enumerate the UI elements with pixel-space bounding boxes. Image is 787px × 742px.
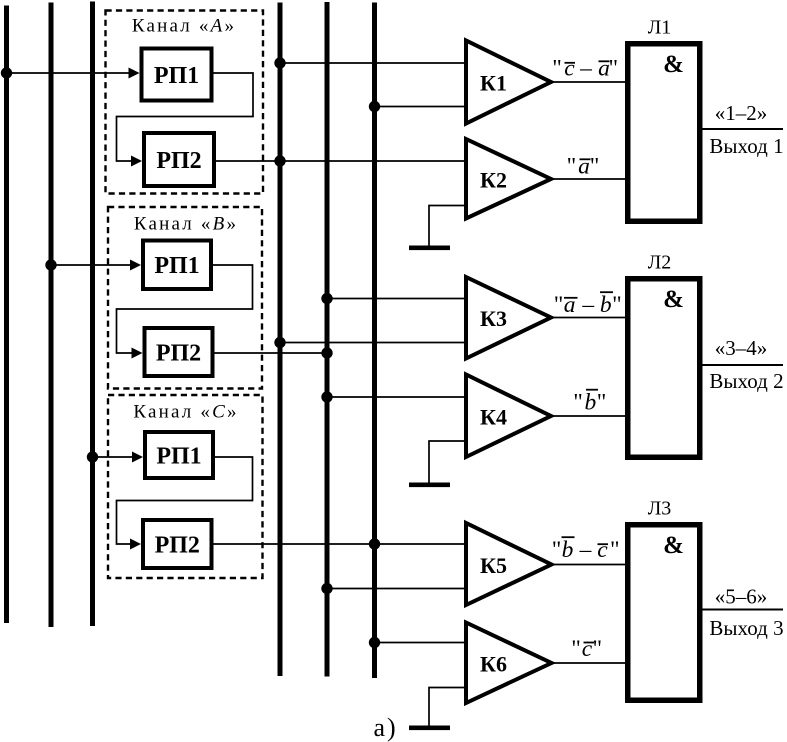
svg-text:К3: К3 bbox=[480, 306, 507, 331]
arrowhead into RP2-C bbox=[130, 539, 141, 550]
junction dot net-c bus / K1 input bbox=[369, 101, 380, 112]
svg-text:": " bbox=[612, 292, 622, 318]
block РП2 (RP2 channel C) bbox=[143, 520, 212, 568]
svg-text:К4: К4 bbox=[480, 405, 507, 430]
svg-text:": " bbox=[554, 292, 564, 318]
wire: L3 output bbox=[703, 609, 784, 611]
wire: K2 output to L1 bbox=[551, 178, 627, 180]
wire: phase-C bus to RP1-C input bbox=[93, 456, 133, 458]
ground symbol under K2 bbox=[409, 246, 450, 251]
wire: RP2-B output to net-b bus bbox=[214, 352, 328, 354]
svg-text:Канал «A»: Канал «A» bbox=[132, 16, 236, 37]
junction dot net-b bus / K4 input bbox=[321, 391, 332, 402]
junction dot net-b bus / RP2-B output bbox=[321, 347, 332, 358]
arrowhead into RP1-A bbox=[129, 68, 140, 79]
junction dot on phase-C bus bbox=[87, 451, 98, 462]
signal label "b" at K4 output bbox=[573, 390, 606, 416]
block РП1 (RP1 channel C) bbox=[145, 432, 213, 478]
bus A phase (left 1) bbox=[4, 6, 9, 624]
junction dot net-a bus / K1 input bbox=[274, 57, 285, 68]
svg-text:b: b bbox=[600, 292, 612, 318]
wire: RP1-C output feedback to RP2-C bbox=[117, 457, 253, 544]
svg-text:РП2: РП2 bbox=[155, 532, 200, 558]
comparator K3 bbox=[466, 277, 551, 359]
ground symbol under K4 bbox=[409, 483, 450, 488]
arrowhead into RP1-C bbox=[132, 452, 143, 463]
svg-text:–: – bbox=[579, 56, 592, 82]
svg-text:b: b bbox=[585, 390, 597, 416]
wire: RP2-C output to comparator K5 input bbox=[212, 543, 466, 545]
block РП2 (RP2 channel A) bbox=[144, 133, 214, 186]
svg-text:c: c bbox=[582, 636, 593, 662]
junction dot on phase-B bus bbox=[45, 259, 56, 270]
bus B phase (left 2) bbox=[49, 3, 54, 628]
comparator K5 bbox=[466, 523, 552, 605]
svg-text:": " bbox=[567, 154, 577, 180]
wire: phase-B bus to RP1-B input bbox=[51, 264, 130, 266]
junction dot net-b bus / K5 input bbox=[321, 583, 332, 594]
wire: K5 output to L3 bbox=[552, 564, 628, 566]
signal label "a" at K2 output bbox=[567, 154, 600, 180]
svg-text:«1–2»: «1–2» bbox=[715, 101, 768, 125]
svg-text:&: & bbox=[663, 51, 684, 78]
svg-text:РП2: РП2 bbox=[156, 148, 201, 174]
svg-text:Выход 1: Выход 1 bbox=[709, 134, 783, 158]
svg-text:": " bbox=[552, 56, 562, 82]
wire: net-c bus to K1 lower input bbox=[375, 106, 467, 108]
wire: K6 lower input to ground bbox=[429, 688, 466, 727]
bus C phase (left 3) bbox=[90, 2, 95, 627]
svg-text:": " bbox=[609, 56, 619, 82]
wire: L2 output bbox=[703, 364, 784, 366]
svg-text:РП2: РП2 bbox=[156, 340, 201, 366]
wire: net-b bus to K3 upper input bbox=[327, 298, 466, 300]
junction dot net-a bus / K3 input bbox=[274, 337, 285, 348]
svg-text:b: b bbox=[562, 537, 574, 563]
svg-text:": " bbox=[552, 537, 562, 563]
signal label "a-b" at K3 output bbox=[554, 292, 622, 318]
svg-text:Канал «B»: Канал «B» bbox=[134, 214, 238, 235]
svg-text:–: – bbox=[581, 292, 594, 318]
svg-text:«5–6»: «5–6» bbox=[715, 585, 768, 609]
svg-text:К5: К5 bbox=[480, 553, 507, 578]
svg-text:«3–4»: «3–4» bbox=[715, 336, 768, 360]
ground symbol under K6 bbox=[409, 726, 450, 731]
comparator K6 bbox=[466, 623, 552, 704]
svg-text:a: a bbox=[564, 292, 576, 318]
svg-text:a: a bbox=[578, 154, 590, 180]
bus net c (mid 3) bbox=[372, 3, 377, 679]
wire: net-a bus to K3 lower input bbox=[280, 342, 466, 344]
svg-text:&: & bbox=[663, 286, 684, 313]
svg-text:Л1: Л1 bbox=[648, 17, 672, 39]
junction dot on phase-A bus bbox=[1, 67, 12, 78]
channel C dashed box bbox=[108, 395, 263, 578]
channel B dashed box bbox=[108, 207, 262, 389]
junction dot net-a bus / RP2-A output bbox=[274, 155, 285, 166]
comparator K2 bbox=[466, 139, 551, 219]
channel A dashed box bbox=[106, 11, 264, 194]
svg-text:": " bbox=[610, 537, 620, 563]
svg-text:РП1: РП1 bbox=[154, 253, 199, 279]
wire: K1 output to L1 bbox=[551, 81, 627, 83]
bus net b (mid 2) bbox=[325, 2, 330, 677]
wire: net-b bus to K5 lower input bbox=[327, 588, 466, 590]
block РП1 (RP1 channel A) bbox=[142, 49, 212, 101]
svg-text:К1: К1 bbox=[480, 71, 507, 96]
junction dot net-c bus / RP2-C output bbox=[369, 538, 380, 549]
svg-text:": " bbox=[597, 390, 607, 416]
svg-text:а): а) bbox=[374, 713, 398, 742]
arrowhead into RP1-B bbox=[130, 260, 141, 271]
svg-text:Л3: Л3 bbox=[648, 498, 672, 520]
wire: RP1-A output feedback to RP2-A bbox=[117, 73, 254, 161]
svg-text:": " bbox=[593, 636, 603, 662]
signal label "c" at K6 output bbox=[571, 636, 602, 662]
svg-text:Выход 3: Выход 3 bbox=[709, 616, 783, 640]
wire: net-a bus to K1 upper input bbox=[280, 62, 466, 64]
block РП1 (RP1 channel B) bbox=[143, 241, 211, 290]
svg-text:К2: К2 bbox=[480, 168, 507, 193]
svg-text:c: c bbox=[597, 537, 608, 563]
svg-text:–: – bbox=[579, 537, 592, 563]
comparator K4 bbox=[466, 375, 551, 458]
svg-text:": " bbox=[590, 154, 600, 180]
AND gate L3 bbox=[628, 525, 700, 701]
svg-text:&: & bbox=[663, 532, 684, 559]
wire: phase-A bus to RP1-A input bbox=[7, 72, 129, 74]
wire: net-b bus to K4 upper input bbox=[327, 396, 466, 398]
svg-text:Канал «C»: Канал «C» bbox=[133, 402, 238, 423]
svg-text:c: c bbox=[564, 56, 575, 82]
comparator K1 bbox=[466, 41, 551, 124]
arrowhead into RP2-B bbox=[132, 348, 143, 359]
svg-text:Выход 2: Выход 2 bbox=[709, 369, 783, 393]
svg-text:Л2: Л2 bbox=[648, 252, 672, 274]
wire: RP1-B output feedback to RP2-B bbox=[117, 265, 253, 353]
wire: L1 output bbox=[703, 128, 784, 130]
block РП2 (RP2 channel B) bbox=[145, 328, 213, 376]
wire: K6 output to L3 bbox=[552, 662, 628, 664]
wire: K2 lower input to ground bbox=[429, 206, 466, 247]
svg-text:": " bbox=[573, 390, 583, 416]
wire: net-c bus to K6 upper input bbox=[375, 642, 467, 644]
AND gate L2 bbox=[628, 279, 700, 458]
signal label "b-c" at K5 output bbox=[552, 537, 620, 563]
wire: K4 lower input to ground bbox=[429, 441, 466, 483]
bus net a (mid 1) bbox=[278, 3, 283, 677]
wire: RP2-A output to comparator K2 input bbox=[215, 160, 466, 162]
svg-text:РП1: РП1 bbox=[156, 443, 201, 469]
signal label "c-a" at K1 output bbox=[552, 56, 618, 82]
svg-text:РП1: РП1 bbox=[154, 63, 199, 89]
svg-text:К6: К6 bbox=[480, 652, 507, 677]
arrowhead into RP2-A bbox=[131, 156, 142, 167]
wire: K3 output to L2 bbox=[551, 317, 627, 319]
svg-text:": " bbox=[571, 636, 581, 662]
AND gate L1 bbox=[628, 44, 700, 222]
junction dot net-b bus / K3 input bbox=[321, 293, 332, 304]
wire: K4 output to L2 bbox=[551, 415, 627, 417]
junction dot net-c bus / K6 input bbox=[369, 637, 380, 648]
